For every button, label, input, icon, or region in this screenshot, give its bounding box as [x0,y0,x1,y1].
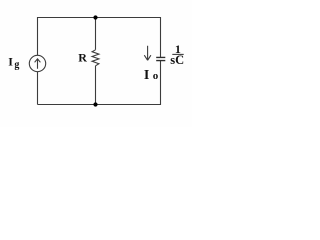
svg-text:I: I [8,54,13,68]
svg-text:sC: sC [170,53,184,67]
svg-text:R: R [78,51,87,65]
svg-text:g: g [14,59,19,70]
svg-text:I: I [144,68,149,83]
svg-text:o: o [153,70,159,82]
